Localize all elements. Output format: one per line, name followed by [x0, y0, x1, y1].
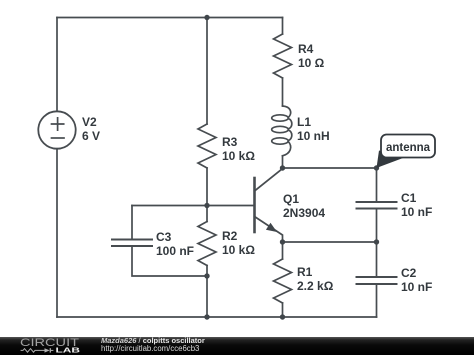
wire emitter row — [283, 241, 377, 243]
resistor R4 zigzag — [274, 34, 292, 78]
label R3 — [222, 135, 255, 163]
wire R4 top lead — [282, 18, 284, 35]
wire R3 bottom lead — [206, 168, 208, 205]
wire left rail lower — [56, 149, 58, 317]
capacitor C3 plates — [112, 240, 152, 247]
wire L1 bottom lead — [282, 156, 284, 168]
voltage source V2 circle — [38, 111, 75, 148]
label R4 — [298, 42, 324, 70]
antenna flag tail — [377, 151, 406, 169]
node dot emitter — [280, 239, 285, 244]
label V2 — [82, 115, 100, 143]
inductor L1 coil — [272, 106, 292, 156]
transistor Q1 base bar — [253, 178, 256, 232]
footer url line — [101, 345, 199, 353]
resistor R1 zigzag — [274, 259, 292, 303]
label R2 — [222, 229, 255, 257]
svg-text:LAB: LAB — [56, 345, 81, 354]
label R1 — [297, 265, 333, 293]
node dot R2/C3 bottom — [204, 273, 209, 278]
wire R1 top lead — [282, 242, 284, 259]
wire R2 bottom lead — [206, 266, 208, 318]
wire C1 to emitter node — [376, 209, 378, 243]
resistor R3 zigzag — [198, 124, 216, 168]
label C1 — [401, 191, 432, 219]
node dot top rail / R3 — [204, 15, 209, 20]
transistor Q1 emitter stroke — [255, 217, 283, 243]
antenna flag box — [381, 135, 435, 158]
footer bar — [0, 337, 474, 355]
transistor Q1 collector stroke — [255, 169, 283, 191]
node dot antenna — [374, 165, 379, 170]
wire C3 top branch — [131, 206, 133, 240]
node dot C1/C2 — [374, 239, 379, 244]
resistor R2 zigzag — [198, 222, 216, 266]
wire antenna column to C1 — [376, 168, 378, 202]
wire R3 top lead — [206, 18, 208, 125]
wire C2 bottom lead — [376, 284, 378, 317]
capacitor C1 plates — [357, 202, 397, 209]
wire R4 to L1 — [282, 78, 284, 106]
label C3 — [156, 230, 194, 258]
wire R2 top lead — [206, 206, 208, 222]
wire collector row — [283, 167, 377, 169]
wire C2 top lead — [376, 242, 378, 277]
wire bottom rail — [57, 316, 377, 318]
node dot collector / L1 — [280, 165, 285, 170]
wire R1 bottom lead — [282, 303, 284, 317]
wire top rail — [57, 17, 283, 19]
capacitor C2 plates — [357, 277, 397, 284]
svg-text:antenna: antenna — [386, 142, 431, 154]
node dot bottom rail R1 — [280, 314, 285, 319]
label Q1 — [283, 192, 325, 220]
label L1 — [297, 115, 330, 143]
label C2 — [401, 266, 432, 294]
node dot base — [204, 203, 209, 208]
footer credit line — [101, 337, 205, 345]
wire C3 bottom branch — [132, 246, 207, 276]
wire left rail upper — [56, 18, 58, 112]
circuitlab logo — [15, 337, 110, 355]
V2 minus sign — [52, 137, 65, 139]
V2 plus sign — [52, 118, 64, 130]
node dot bottom rail R2 — [204, 314, 209, 319]
wire base row — [132, 205, 255, 207]
transistor Q1 emitter arrow — [266, 223, 277, 232]
